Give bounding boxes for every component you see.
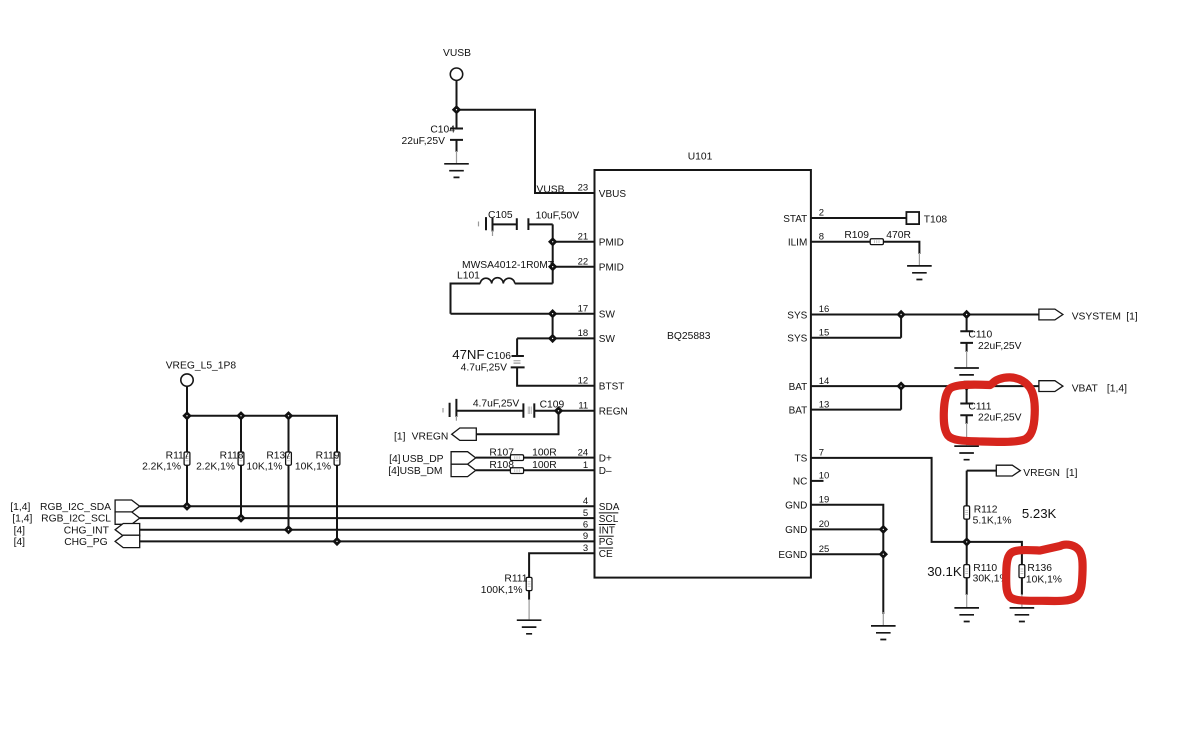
svg-text:BTST: BTST — [599, 382, 625, 393]
svg-text:R118: R118 — [220, 451, 244, 462]
svg-text:C106: C106 — [486, 351, 511, 362]
svg-text:[1,4]: [1,4] — [10, 502, 30, 513]
svg-text:[4]: [4] — [14, 525, 26, 536]
svg-text:C105: C105 — [488, 210, 513, 221]
svg-text:SW: SW — [599, 334, 616, 345]
svg-text:[1]: [1] — [1126, 311, 1138, 322]
svg-text:PMID: PMID — [599, 263, 624, 274]
svg-text:R137: R137 — [266, 451, 291, 462]
svg-text:R117: R117 — [166, 451, 190, 462]
svg-text:470R: 470R — [886, 230, 911, 241]
svg-text:[1]: [1] — [1066, 468, 1078, 479]
svg-text:10K,1%: 10K,1% — [246, 461, 282, 472]
svg-text:22uF,25V: 22uF,25V — [401, 136, 445, 147]
svg-text:NC: NC — [793, 477, 807, 488]
svg-text:BAT: BAT — [789, 382, 808, 393]
svg-text:INT: INT — [599, 526, 615, 537]
svg-text:17: 17 — [578, 303, 589, 314]
svg-text:47NF: 47NF — [452, 347, 484, 362]
svg-text:U101: U101 — [688, 151, 713, 162]
svg-text:GND: GND — [785, 525, 807, 536]
svg-text:SCL: SCL — [599, 514, 619, 525]
svg-text:CE: CE — [599, 549, 613, 560]
svg-text:C104: C104 — [430, 124, 455, 135]
svg-text:R109: R109 — [844, 230, 869, 241]
svg-text:2.2K,1%: 2.2K,1% — [142, 461, 181, 472]
svg-text:SDA: SDA — [599, 502, 620, 513]
svg-text:ILIM: ILIM — [788, 238, 807, 249]
svg-text:BAT: BAT — [789, 405, 808, 416]
svg-text:VREGN: VREGN — [1023, 468, 1060, 479]
svg-text:C109: C109 — [540, 400, 565, 411]
svg-text:9: 9 — [583, 531, 588, 542]
svg-text:[4]: [4] — [14, 537, 26, 548]
svg-text:RGB_I2C_SDA: RGB_I2C_SDA — [40, 502, 111, 513]
svg-text:10: 10 — [819, 471, 830, 482]
svg-text:10uF,50V: 10uF,50V — [536, 211, 580, 222]
svg-text:R107: R107 — [489, 448, 514, 459]
svg-text:5.1K,1%: 5.1K,1% — [973, 516, 1012, 527]
svg-text:C111: C111 — [968, 401, 991, 412]
svg-text:USB_DP: USB_DP — [402, 454, 443, 465]
svg-text:[1]: [1] — [394, 432, 406, 443]
svg-text:22uF,25V: 22uF,25V — [978, 341, 1022, 352]
svg-text:18: 18 — [578, 328, 589, 339]
svg-text:VUSB: VUSB — [443, 48, 471, 59]
svg-text:T108: T108 — [924, 214, 948, 225]
svg-text:2.2K,1%: 2.2K,1% — [196, 461, 235, 472]
svg-text:R119: R119 — [316, 451, 340, 462]
svg-text:22uF,25V: 22uF,25V — [978, 413, 1022, 424]
svg-text:STAT: STAT — [783, 214, 807, 225]
svg-text:BQ25883: BQ25883 — [667, 331, 711, 342]
svg-text:25: 25 — [819, 544, 830, 555]
svg-text:15: 15 — [819, 328, 830, 339]
svg-text:4.7uF,25V: 4.7uF,25V — [461, 363, 508, 374]
svg-text:[1,4]: [1,4] — [1107, 383, 1127, 394]
svg-text:1: 1 — [583, 460, 588, 471]
svg-text:100K,1%: 100K,1% — [481, 585, 523, 596]
svg-text:GND: GND — [785, 501, 807, 512]
svg-text:5.23K: 5.23K — [1022, 506, 1057, 521]
svg-text:R136: R136 — [1027, 563, 1052, 574]
svg-text:SYS: SYS — [787, 310, 807, 321]
svg-text:22: 22 — [578, 256, 589, 267]
svg-text:CHG_INT: CHG_INT — [64, 525, 110, 536]
svg-text:8: 8 — [819, 231, 824, 242]
svg-text:13: 13 — [819, 399, 830, 410]
svg-text:VREGN: VREGN — [412, 432, 449, 443]
svg-text:100R: 100R — [532, 448, 557, 459]
svg-text:[1,4]: [1,4] — [12, 514, 32, 525]
svg-text:6: 6 — [583, 519, 588, 530]
svg-text:RGB_I2C_SCL: RGB_I2C_SCL — [41, 514, 111, 525]
svg-text:R111: R111 — [504, 574, 527, 585]
svg-text:TS: TS — [795, 454, 808, 465]
svg-text:19: 19 — [819, 495, 830, 506]
svg-text:C110: C110 — [968, 330, 992, 341]
svg-text:L101: L101 — [457, 271, 480, 282]
svg-text:4.7uF,25V: 4.7uF,25V — [473, 399, 520, 410]
svg-text:23: 23 — [578, 183, 589, 194]
svg-text:R110: R110 — [973, 563, 997, 574]
svg-text:PG: PG — [599, 537, 614, 548]
svg-text:100R: 100R — [532, 460, 557, 471]
svg-text:12: 12 — [578, 376, 589, 387]
svg-text:[4]: [4] — [389, 454, 401, 465]
svg-text:7: 7 — [819, 448, 824, 459]
svg-text:R108: R108 — [489, 460, 514, 471]
svg-text:EGND: EGND — [778, 550, 807, 561]
svg-text:10K,1%: 10K,1% — [295, 461, 331, 472]
svg-text:SW: SW — [599, 310, 616, 321]
svg-text:30.1K: 30.1K — [927, 564, 962, 579]
svg-text:D+: D+ — [599, 453, 612, 464]
svg-text:5: 5 — [583, 508, 588, 519]
svg-text:[4]: [4] — [388, 466, 400, 477]
svg-text:2: 2 — [819, 208, 824, 219]
svg-text:PMID: PMID — [599, 238, 624, 249]
svg-text:4: 4 — [583, 496, 588, 507]
svg-text:VREG_L5_1P8: VREG_L5_1P8 — [166, 361, 237, 372]
svg-text:REGN: REGN — [599, 407, 628, 418]
svg-text:USB_DM: USB_DM — [400, 466, 443, 477]
svg-text:11: 11 — [578, 401, 588, 412]
svg-text:20: 20 — [819, 519, 830, 530]
svg-text:10K,1%: 10K,1% — [1026, 575, 1062, 586]
svg-text:CHG_PG: CHG_PG — [64, 537, 108, 548]
svg-text:14: 14 — [819, 376, 830, 387]
svg-text:16: 16 — [819, 304, 830, 315]
svg-text:3: 3 — [583, 543, 588, 554]
svg-text:R112: R112 — [974, 505, 998, 516]
svg-text:21: 21 — [578, 232, 589, 243]
svg-text:VBUS: VBUS — [599, 189, 627, 200]
svg-text:D–: D– — [599, 466, 612, 477]
svg-text:VSYSTEM: VSYSTEM — [1072, 311, 1121, 322]
svg-text:VBAT: VBAT — [1072, 383, 1099, 394]
svg-text:SYS: SYS — [787, 334, 807, 345]
svg-text:24: 24 — [578, 447, 589, 458]
svg-text:VUSB: VUSB — [537, 185, 565, 196]
